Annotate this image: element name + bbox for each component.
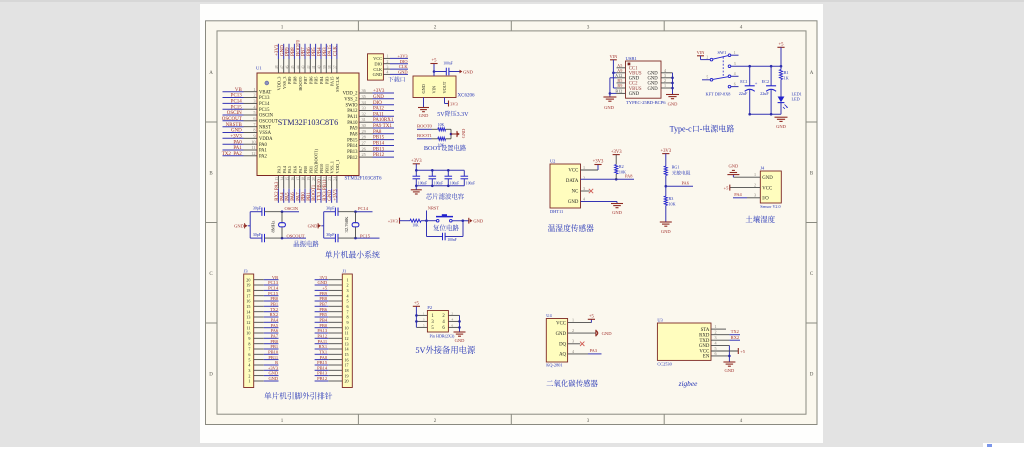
svg-text:3: 3 xyxy=(587,24,590,31)
svg-text:PC15: PC15 xyxy=(360,233,371,239)
svg-text:VDD_1: VDD_1 xyxy=(335,160,341,174)
svg-text:GND: GND xyxy=(668,102,678,108)
svg-text:+5: +5 xyxy=(779,42,785,48)
svg-text:OSCIN: OSCIN xyxy=(285,206,299,212)
svg-text:PA2: PA2 xyxy=(259,154,268,160)
svg-text:20: 20 xyxy=(345,379,349,385)
svg-text:单片机引脚外引排针: 单片机引脚外引排针 xyxy=(264,390,333,401)
svg-text:12: 12 xyxy=(251,151,255,157)
svg-text:Pin HDR(2X3): Pin HDR(2X3) xyxy=(430,333,456,339)
svg-text:A: A xyxy=(810,69,814,76)
svg-text:DQ: DQ xyxy=(559,341,566,348)
svg-text:CC2530: CC2530 xyxy=(657,362,671,368)
svg-text:VCC: VCC xyxy=(762,184,772,191)
svg-text:GND: GND xyxy=(725,368,735,374)
svg-text:10K: 10K xyxy=(438,123,445,128)
svg-text:16: 16 xyxy=(291,177,296,181)
svg-text:30pF: 30pF xyxy=(253,232,262,238)
svg-text:5V外接备用电源: 5V外接备用电源 xyxy=(415,344,476,356)
svg-text:GND: GND xyxy=(629,90,640,97)
svg-text:U2: U2 xyxy=(550,158,555,164)
svg-text:+5: +5 xyxy=(432,58,438,64)
svg-text:100nF: 100nF xyxy=(443,62,452,67)
svg-text:41: 41 xyxy=(312,65,317,69)
svg-text:GND: GND xyxy=(612,210,622,216)
svg-text:GND: GND xyxy=(776,124,786,130)
svg-text:VIN: VIN xyxy=(431,86,437,94)
svg-text:复位电路: 复位电路 xyxy=(433,223,460,232)
svg-text:J1: J1 xyxy=(342,269,346,275)
svg-text:VOUT: VOUT xyxy=(442,81,448,93)
svg-text:GND: GND xyxy=(556,330,567,337)
svg-text:100nF: 100nF xyxy=(450,181,459,186)
svg-text:17: 17 xyxy=(296,177,301,181)
svg-text:40: 40 xyxy=(318,65,323,69)
svg-text:100nF: 100nF xyxy=(466,181,475,186)
svg-text:GND: GND xyxy=(648,86,659,92)
svg-text:8MHz: 8MHz xyxy=(270,221,276,233)
svg-text:22uF: 22uF xyxy=(739,91,748,97)
svg-text:单片机最小系统: 单片机最小系统 xyxy=(325,250,380,261)
svg-text:1: 1 xyxy=(387,55,389,60)
svg-text:GND: GND xyxy=(373,72,383,78)
svg-text:44: 44 xyxy=(296,65,301,69)
svg-text:+3V3: +3V3 xyxy=(593,159,604,165)
svg-text:PA4: PA4 xyxy=(734,192,742,198)
svg-text:+5: +5 xyxy=(724,185,729,191)
svg-text:PA8: PA8 xyxy=(625,174,633,180)
svg-text:GND: GND xyxy=(473,219,483,225)
svg-text:1: 1 xyxy=(423,310,425,315)
svg-text:RX2: RX2 xyxy=(731,335,739,341)
svg-text:PA6: PA6 xyxy=(682,181,690,187)
svg-text:晶振电路: 晶振电路 xyxy=(293,239,319,248)
svg-text:1: 1 xyxy=(248,379,250,385)
svg-text:PB12: PB12 xyxy=(373,151,385,158)
svg-text:二氧化碳传感器: 二氧化碳传感器 xyxy=(546,378,598,389)
svg-text:30pF: 30pF xyxy=(326,232,335,238)
svg-text:DATA: DATA xyxy=(566,177,579,184)
svg-text:EC1: EC1 xyxy=(740,79,747,85)
svg-text:GND: GND xyxy=(234,224,244,230)
svg-text:10K: 10K xyxy=(669,202,676,208)
svg-text:48: 48 xyxy=(275,65,280,69)
svg-text:2: 2 xyxy=(452,310,454,315)
svg-text:25: 25 xyxy=(362,152,366,158)
svg-text:43: 43 xyxy=(302,65,307,69)
svg-text:GND: GND xyxy=(661,229,671,235)
svg-text:+3V3: +3V3 xyxy=(611,149,622,155)
svg-text:22uF: 22uF xyxy=(760,91,769,97)
svg-text:CLK: CLK xyxy=(332,46,339,56)
svg-text:U3: U3 xyxy=(657,318,663,324)
svg-text:温湿度传感器: 温湿度传感器 xyxy=(548,223,594,234)
svg-text:D: D xyxy=(810,371,814,378)
svg-text:18: 18 xyxy=(302,177,307,181)
svg-text:土壤湿度: 土壤湿度 xyxy=(745,214,775,225)
svg-text:42: 42 xyxy=(307,65,312,69)
svg-text:芯片滤波电容: 芯片滤波电容 xyxy=(426,192,465,201)
svg-text:Type-c口-电源电路: Type-c口-电源电路 xyxy=(670,124,735,135)
svg-text:GND: GND xyxy=(268,376,278,382)
svg-text:100nF: 100nF xyxy=(418,181,427,186)
svg-text:+5: +5 xyxy=(740,349,745,355)
svg-text:10K: 10K xyxy=(619,169,626,175)
svg-text:38: 38 xyxy=(328,65,333,69)
svg-text:37: 37 xyxy=(334,65,339,69)
svg-text:14: 14 xyxy=(280,177,285,181)
svg-text:13: 13 xyxy=(275,177,280,181)
svg-text:10K: 10K xyxy=(412,224,419,229)
svg-text:KFT DIP-8X8: KFT DIP-8X8 xyxy=(706,92,731,98)
svg-text:1: 1 xyxy=(664,83,666,89)
svg-text:GND: GND xyxy=(308,224,318,230)
svg-text:GND: GND xyxy=(421,84,427,93)
svg-text:45: 45 xyxy=(291,65,296,69)
svg-text:LED: LED xyxy=(792,97,800,103)
svg-text:U4: U4 xyxy=(546,313,552,319)
svg-text:5V降压3.3V: 5V降压3.3V xyxy=(437,109,469,118)
svg-text:2: 2 xyxy=(387,60,389,65)
svg-text:GND: GND xyxy=(729,163,739,169)
svg-text:GND: GND xyxy=(568,198,579,205)
svg-text:SWCLK: SWCLK xyxy=(335,76,341,92)
svg-text:I/O: I/O xyxy=(762,195,769,202)
svg-text:P2: P2 xyxy=(427,305,432,311)
svg-text:光敏电阻: 光敏电阻 xyxy=(672,169,691,176)
svg-text:4: 4 xyxy=(452,316,454,321)
svg-text:下载口: 下载口 xyxy=(388,75,406,84)
svg-text:Sensor V2.0: Sensor V2.0 xyxy=(760,204,780,210)
svg-text:GND: GND xyxy=(762,174,773,181)
svg-text:100nF: 100nF xyxy=(434,181,443,186)
svg-text:EC2: EC2 xyxy=(762,79,769,85)
svg-text:D: D xyxy=(209,371,213,378)
svg-text:15: 15 xyxy=(286,177,291,181)
svg-text:BOOT设置电路: BOOT设置电路 xyxy=(424,143,467,152)
svg-text:30pF: 30pF xyxy=(253,205,262,211)
svg-text:SW1: SW1 xyxy=(718,50,727,56)
svg-text:+: + xyxy=(755,80,758,86)
svg-text:GND: GND xyxy=(461,129,467,139)
svg-text:+5: +5 xyxy=(414,301,420,307)
svg-text:2: 2 xyxy=(583,175,585,181)
svg-text:23: 23 xyxy=(328,177,333,181)
svg-text:2: 2 xyxy=(706,55,708,60)
svg-text:U1: U1 xyxy=(256,66,262,72)
svg-text:XC6206: XC6206 xyxy=(458,92,475,99)
svg-text:1: 1 xyxy=(281,24,284,31)
svg-text:4: 4 xyxy=(740,24,743,31)
svg-text:39: 39 xyxy=(323,65,328,69)
svg-text:32.768K: 32.768K xyxy=(344,216,350,233)
svg-text:100nF: 100nF xyxy=(447,238,456,243)
svg-text:DHT11: DHT11 xyxy=(550,209,563,215)
svg-text:19: 19 xyxy=(307,177,312,181)
svg-text:GND: GND xyxy=(602,331,613,337)
svg-text:TYPEC-25BD-BCP6: TYPEC-25BD-BCP6 xyxy=(626,100,666,106)
svg-text:46: 46 xyxy=(286,65,291,69)
svg-text:AQ: AQ xyxy=(559,351,566,358)
svg-text:zigbee: zigbee xyxy=(678,379,698,389)
svg-text:47: 47 xyxy=(280,65,285,69)
svg-text:PB12: PB12 xyxy=(317,376,327,382)
svg-text:VCC: VCC xyxy=(556,319,566,326)
svg-text:PA3: PA3 xyxy=(590,348,598,354)
svg-text:VCC: VCC xyxy=(568,167,578,174)
svg-text:5: 5 xyxy=(423,322,425,327)
svg-text:1K: 1K xyxy=(784,76,789,82)
svg-text:NC: NC xyxy=(572,188,579,195)
svg-text:KQ-2801: KQ-2801 xyxy=(546,363,562,369)
svg-text:30pF: 30pF xyxy=(326,205,335,211)
svg-text:2: 2 xyxy=(434,24,437,31)
svg-text:A: A xyxy=(209,69,213,76)
svg-text:3: 3 xyxy=(387,65,389,70)
svg-text:6: 6 xyxy=(452,322,454,327)
svg-text:+3V3: +3V3 xyxy=(411,158,422,164)
svg-text:PB12: PB12 xyxy=(347,155,358,161)
svg-text:GND: GND xyxy=(419,113,429,119)
svg-text:GND: GND xyxy=(604,105,614,111)
svg-text:3: 3 xyxy=(423,316,425,321)
svg-text:STM32F103C8T6: STM32F103C8T6 xyxy=(278,117,339,128)
svg-text:PC14: PC14 xyxy=(358,206,369,212)
svg-text:USB1: USB1 xyxy=(626,56,638,62)
svg-text:EN: EN xyxy=(703,353,710,360)
svg-text:STM32F103C8T6: STM32F103C8T6 xyxy=(345,174,382,181)
svg-text:+3V3: +3V3 xyxy=(388,218,399,224)
svg-text:GND: GND xyxy=(463,69,473,75)
svg-text:TX2 PA2: TX2 PA2 xyxy=(222,150,243,157)
svg-text:NRST: NRST xyxy=(428,206,440,212)
svg-text:+5: +5 xyxy=(589,314,595,320)
svg-text:+3V3: +3V3 xyxy=(660,148,671,154)
svg-text:24: 24 xyxy=(334,177,339,181)
svg-text:+3V3: +3V3 xyxy=(332,189,339,201)
svg-text:3V3: 3V3 xyxy=(450,101,458,107)
